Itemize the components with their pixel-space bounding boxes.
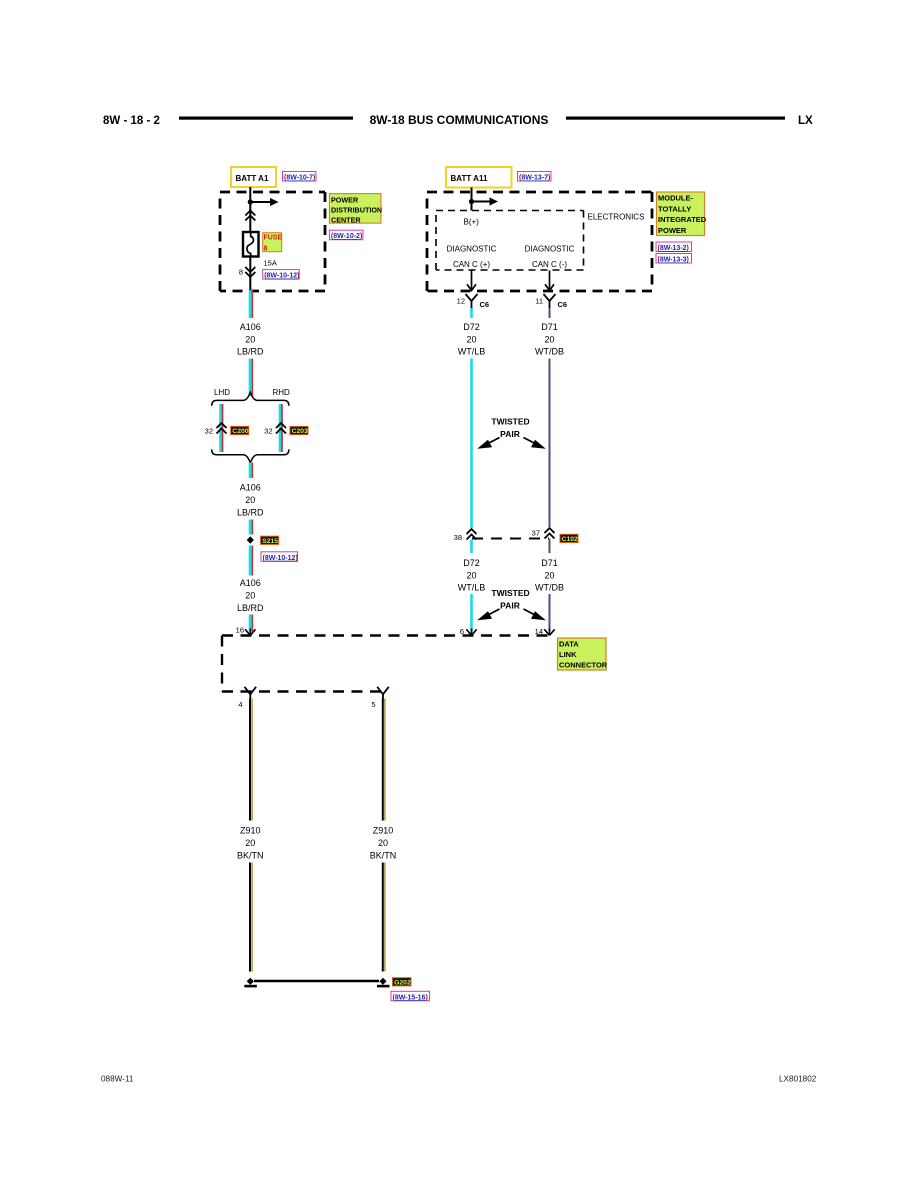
svg-text:LHD: LHD <box>214 388 230 397</box>
svg-text:DIAGNOSTIC: DIAGNOSTIC <box>525 245 575 254</box>
svg-text:ELECTRONICS: ELECTRONICS <box>588 213 645 222</box>
wire D71 seg4 <box>549 594 551 632</box>
svg-text:DATA: DATA <box>559 640 579 649</box>
svg-text:32: 32 <box>264 427 272 436</box>
svg-text:LINK: LINK <box>559 650 577 659</box>
label Z910 right <box>370 826 397 861</box>
C102 dashed inline link <box>472 538 549 540</box>
svg-text:11: 11 <box>535 297 543 306</box>
splice label S215 <box>261 536 279 545</box>
svg-text:C6: C6 <box>558 300 568 309</box>
twisted pair arrow left (2) <box>477 609 499 620</box>
chevron pair down <box>245 267 255 277</box>
svg-text:088W-11: 088W-11 <box>101 1075 134 1084</box>
connector label C200 <box>231 426 249 435</box>
chevron pair up (wire continues) <box>245 211 255 221</box>
label D71 20 WT/DB (2) <box>535 558 564 593</box>
svg-text:20: 20 <box>544 571 554 581</box>
svg-text:CAN C (-): CAN C (-) <box>532 260 567 269</box>
label Z910 left <box>237 826 264 861</box>
ref 8W-10-7 <box>283 172 317 182</box>
svg-text:(8W-13-2): (8W-13-2) <box>658 245 689 252</box>
ref 8W-10-12 <box>263 270 300 280</box>
pin label DIAGNOSTIC CAN C (+) <box>447 245 497 270</box>
connector label C203 <box>290 426 308 435</box>
svg-text:D71: D71 <box>541 558 558 568</box>
svg-text:20: 20 <box>245 838 255 848</box>
connector C6 pin 11 <box>544 294 556 308</box>
svg-text:(8W-15-16): (8W-15-16) <box>393 994 428 1001</box>
Y connector pin 4 <box>245 687 257 699</box>
wire Z910 left seg1 (BK/TN) <box>250 699 252 821</box>
splice S215 diamond <box>247 536 254 543</box>
header rule left <box>179 117 353 120</box>
svg-text:DIAGNOSTIC: DIAGNOSTIC <box>447 245 497 254</box>
svg-text:POWER: POWER <box>331 195 359 204</box>
wire A106 seg5 <box>250 546 252 576</box>
svg-text:LX: LX <box>798 115 813 127</box>
svg-text:TWISTED: TWISTED <box>491 417 529 427</box>
svg-text:(8W-13-7): (8W-13-7) <box>519 175 550 182</box>
wire D71 seg1 (WT/DB) <box>549 308 551 318</box>
node junction dot A11 <box>469 199 474 204</box>
svg-text:6: 6 <box>460 627 464 636</box>
chevrons C200 <box>217 423 227 434</box>
svg-text:37: 37 <box>532 529 540 538</box>
label D71 20 WT/DB (1) <box>535 322 564 356</box>
label A106 20 LB/RD (2) <box>237 483 264 518</box>
svg-text:20: 20 <box>245 495 255 505</box>
POWER DISTRIBUTION CENTER label box <box>329 194 382 225</box>
wire A106 seg6 <box>250 615 252 632</box>
label A106 20 LB/RD (3) <box>237 578 264 613</box>
svg-text:D72: D72 <box>463 558 480 568</box>
svg-text:5: 5 <box>371 700 375 709</box>
svg-text:15A: 15A <box>264 259 277 268</box>
brace bottom merge <box>212 449 289 462</box>
svg-text:8: 8 <box>239 268 243 277</box>
chevrons C102 pin 38 <box>467 529 477 540</box>
module TIPM outer dashed box <box>427 192 652 291</box>
svg-text:8W-18 BUS COMMUNICATIONS: 8W-18 BUS COMMUNICATIONS <box>370 113 549 127</box>
svg-text:LB/RD: LB/RD <box>237 346 264 356</box>
svg-text:TWISTED: TWISTED <box>491 588 529 598</box>
ref 8W-10-12 (S215) <box>261 552 298 562</box>
svg-text:PAIR: PAIR <box>500 429 520 439</box>
connector C6 pin 12 <box>466 294 478 308</box>
label D72 20 WT/LB (2) <box>458 558 486 593</box>
ref 8W-13-7 <box>518 172 552 182</box>
svg-text:CONNECTOR: CONNECTOR <box>559 661 608 670</box>
twisted pair arrow right (1) <box>524 438 546 449</box>
wire BATT A11 feed <box>471 188 473 211</box>
label A106 20 LB/RD (1) <box>237 322 264 356</box>
MODULE TOTALLY INTEGRATED POWER label box <box>657 192 707 236</box>
svg-text:A106: A106 <box>240 483 261 493</box>
BATT A11 box <box>446 167 512 188</box>
svg-text:20: 20 <box>245 591 255 601</box>
svg-text:DISTRIBUTION: DISTRIBUTION <box>331 205 382 214</box>
svg-text:WT/LB: WT/LB <box>458 346 486 356</box>
svg-text:20: 20 <box>378 838 388 848</box>
arrow feed right <box>250 198 278 206</box>
svg-text:(8W-13-3): (8W-13-3) <box>658 257 689 264</box>
svg-text:LB/RD: LB/RD <box>237 603 264 613</box>
wire D72 seg4 <box>470 594 473 632</box>
wire Z910 right seg2 <box>383 863 385 972</box>
svg-text:20: 20 <box>466 571 476 581</box>
wire A106 seg4 <box>250 520 252 535</box>
svg-text:20: 20 <box>466 334 476 344</box>
svg-text:Z910: Z910 <box>373 826 394 836</box>
wire A106 seg3 <box>250 463 252 479</box>
svg-text:38: 38 <box>454 533 462 542</box>
ground G202 left <box>244 978 256 988</box>
svg-text:14: 14 <box>535 627 543 636</box>
label D72 20 WT/LB (1) <box>458 322 486 356</box>
svg-text:C200: C200 <box>232 428 248 435</box>
svg-text:BATT A11: BATT A11 <box>451 174 488 183</box>
power distribution center dashed box <box>220 192 325 291</box>
svg-text:POWER: POWER <box>658 226 687 235</box>
wire Z910 left seg2 <box>250 863 252 972</box>
twisted pair arrow right (2) <box>524 609 546 620</box>
FUSE 8 label <box>263 233 283 253</box>
svg-text:32: 32 <box>205 427 213 436</box>
svg-text:(8W-10-12): (8W-10-12) <box>264 273 299 280</box>
branch wire LHD <box>221 404 223 452</box>
svg-text:(8W-10-2): (8W-10-2) <box>331 233 362 240</box>
chevrons C102 pin 37 <box>545 528 555 539</box>
svg-text:BK/TN: BK/TN <box>370 851 397 861</box>
connector splay pin 14 <box>544 629 554 636</box>
svg-text:CENTER: CENTER <box>331 215 361 224</box>
DLC dashed left drop <box>221 636 223 692</box>
svg-text:G202: G202 <box>394 980 411 987</box>
branch wire RHD <box>280 404 282 452</box>
svg-text:12: 12 <box>457 297 465 306</box>
svg-text:INTEGRATED: INTEGRATED <box>658 215 707 224</box>
wire D71 seg3 <box>549 539 551 553</box>
wire BATT A1 to fuse <box>249 187 251 232</box>
connector label C102 <box>560 534 578 543</box>
DLC dashed bottom line <box>222 690 386 692</box>
svg-text:(8W-10-7): (8W-10-7) <box>284 175 315 182</box>
brace top split <box>212 392 289 405</box>
DLC dashed connector line <box>222 634 554 636</box>
BATT A1 box <box>231 167 276 187</box>
connector splay pin16 <box>245 629 255 636</box>
wire D72 seg3 <box>470 540 473 553</box>
svg-text:MODULE-: MODULE- <box>658 194 693 203</box>
arrow CAN C (+) down <box>467 271 476 291</box>
svg-text:Z910: Z910 <box>240 826 261 836</box>
ground bus line <box>254 980 379 982</box>
svg-text:A106: A106 <box>240 578 261 588</box>
ref 8W-10-2 <box>329 230 363 240</box>
svg-text:8: 8 <box>264 246 268 253</box>
svg-text:A106: A106 <box>240 322 261 332</box>
svg-text:WT/DB: WT/DB <box>535 583 564 593</box>
svg-text:CAN C (+): CAN C (+) <box>453 260 490 269</box>
svg-text:C6: C6 <box>480 300 490 309</box>
svg-text:C203: C203 <box>292 428 308 435</box>
svg-text:(8W-10-12): (8W-10-12) <box>263 555 298 562</box>
pin label DIAGNOSTIC CAN C (-) <box>525 245 575 270</box>
svg-text:WT/LB: WT/LB <box>458 583 486 593</box>
Y connector pin 5 <box>377 687 389 699</box>
fuse F8 <box>243 232 259 257</box>
svg-text:4: 4 <box>238 700 242 709</box>
svg-text:B(+): B(+) <box>464 218 480 227</box>
svg-text:FUSE: FUSE <box>264 235 283 242</box>
wire A106 seg2 <box>250 359 252 397</box>
label TWISTED PAIR (1) <box>491 417 529 440</box>
svg-text:PAIR: PAIR <box>500 601 520 611</box>
svg-text:BK/TN: BK/TN <box>237 851 264 861</box>
label TWISTED PAIR (2) <box>491 588 529 611</box>
ground label G202 <box>393 978 412 987</box>
connector splay pin 6 <box>466 629 476 636</box>
svg-text:20: 20 <box>544 334 554 344</box>
wire Z910 right seg1 <box>383 699 385 821</box>
svg-text:BATT A1: BATT A1 <box>236 174 269 183</box>
electronics inner dashed box <box>436 211 584 271</box>
svg-text:C102: C102 <box>562 536 578 543</box>
ref 8W-15-16 <box>391 991 430 1001</box>
svg-text:LX801802: LX801802 <box>779 1075 817 1084</box>
ref 8W-13-3 <box>656 254 692 264</box>
svg-text:8W - 18 - 2: 8W - 18 - 2 <box>103 115 160 127</box>
wire D72 seg2 <box>470 359 473 529</box>
ground G202 right <box>377 978 390 988</box>
DATA LINK CONNECTOR label box <box>558 638 608 670</box>
svg-text:RHD: RHD <box>273 388 291 397</box>
wire D72 seg1 (WT/LB) <box>470 308 473 318</box>
ref 8W-13-2 <box>656 242 692 252</box>
svg-text:S215: S215 <box>262 538 278 545</box>
arrow feed right A11 <box>472 197 499 205</box>
wire A106 seg1 (LB/RD) <box>250 290 252 318</box>
svg-text:WT/DB: WT/DB <box>535 346 564 356</box>
header rule right <box>566 117 785 120</box>
svg-text:D72: D72 <box>463 322 480 332</box>
svg-text:D71: D71 <box>541 322 558 332</box>
arrow CAN C (-) down <box>545 271 554 291</box>
chevrons C203 <box>276 423 286 434</box>
svg-text:16: 16 <box>236 626 244 635</box>
node junction dot <box>248 199 253 204</box>
svg-text:20: 20 <box>245 334 255 344</box>
svg-text:LB/RD: LB/RD <box>237 508 264 518</box>
twisted pair arrow left (1) <box>477 438 499 449</box>
wire D71 seg2 <box>549 359 551 528</box>
svg-text:TOTALLY: TOTALLY <box>658 204 691 213</box>
wire fuse to box edge <box>249 257 251 292</box>
